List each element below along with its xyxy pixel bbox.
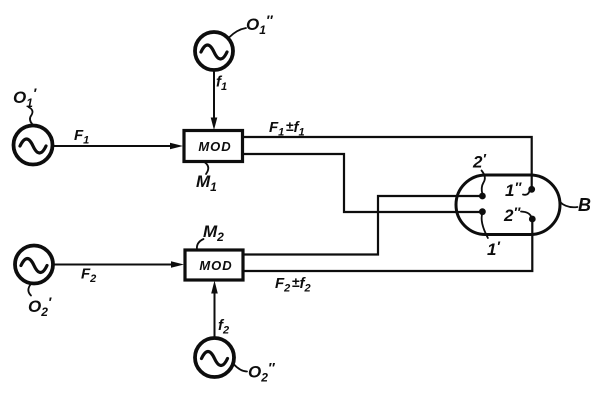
svg-text:B: B	[578, 195, 591, 215]
svg-text:MOD: MOD	[198, 139, 231, 154]
svg-text:MOD: MOD	[199, 258, 232, 273]
